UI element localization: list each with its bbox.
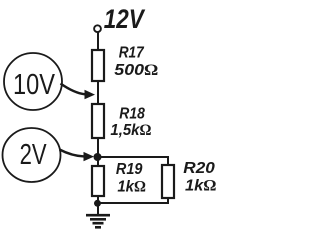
svg-text:R20: R20 xyxy=(183,160,215,177)
svg-text:500Ω: 500Ω xyxy=(114,62,158,79)
svg-text:1,5kΩ: 1,5kΩ xyxy=(110,122,151,139)
svg-text:R19: R19 xyxy=(116,161,143,178)
svg-text:R17: R17 xyxy=(119,45,145,62)
svg-text:1kΩ: 1kΩ xyxy=(117,178,146,195)
svg-text:10V: 10V xyxy=(13,69,56,101)
svg-text:2V: 2V xyxy=(20,139,47,171)
svg-text:R18: R18 xyxy=(119,106,145,123)
svg-text:12V: 12V xyxy=(104,4,146,34)
svg-text:1kΩ: 1kΩ xyxy=(185,177,217,194)
